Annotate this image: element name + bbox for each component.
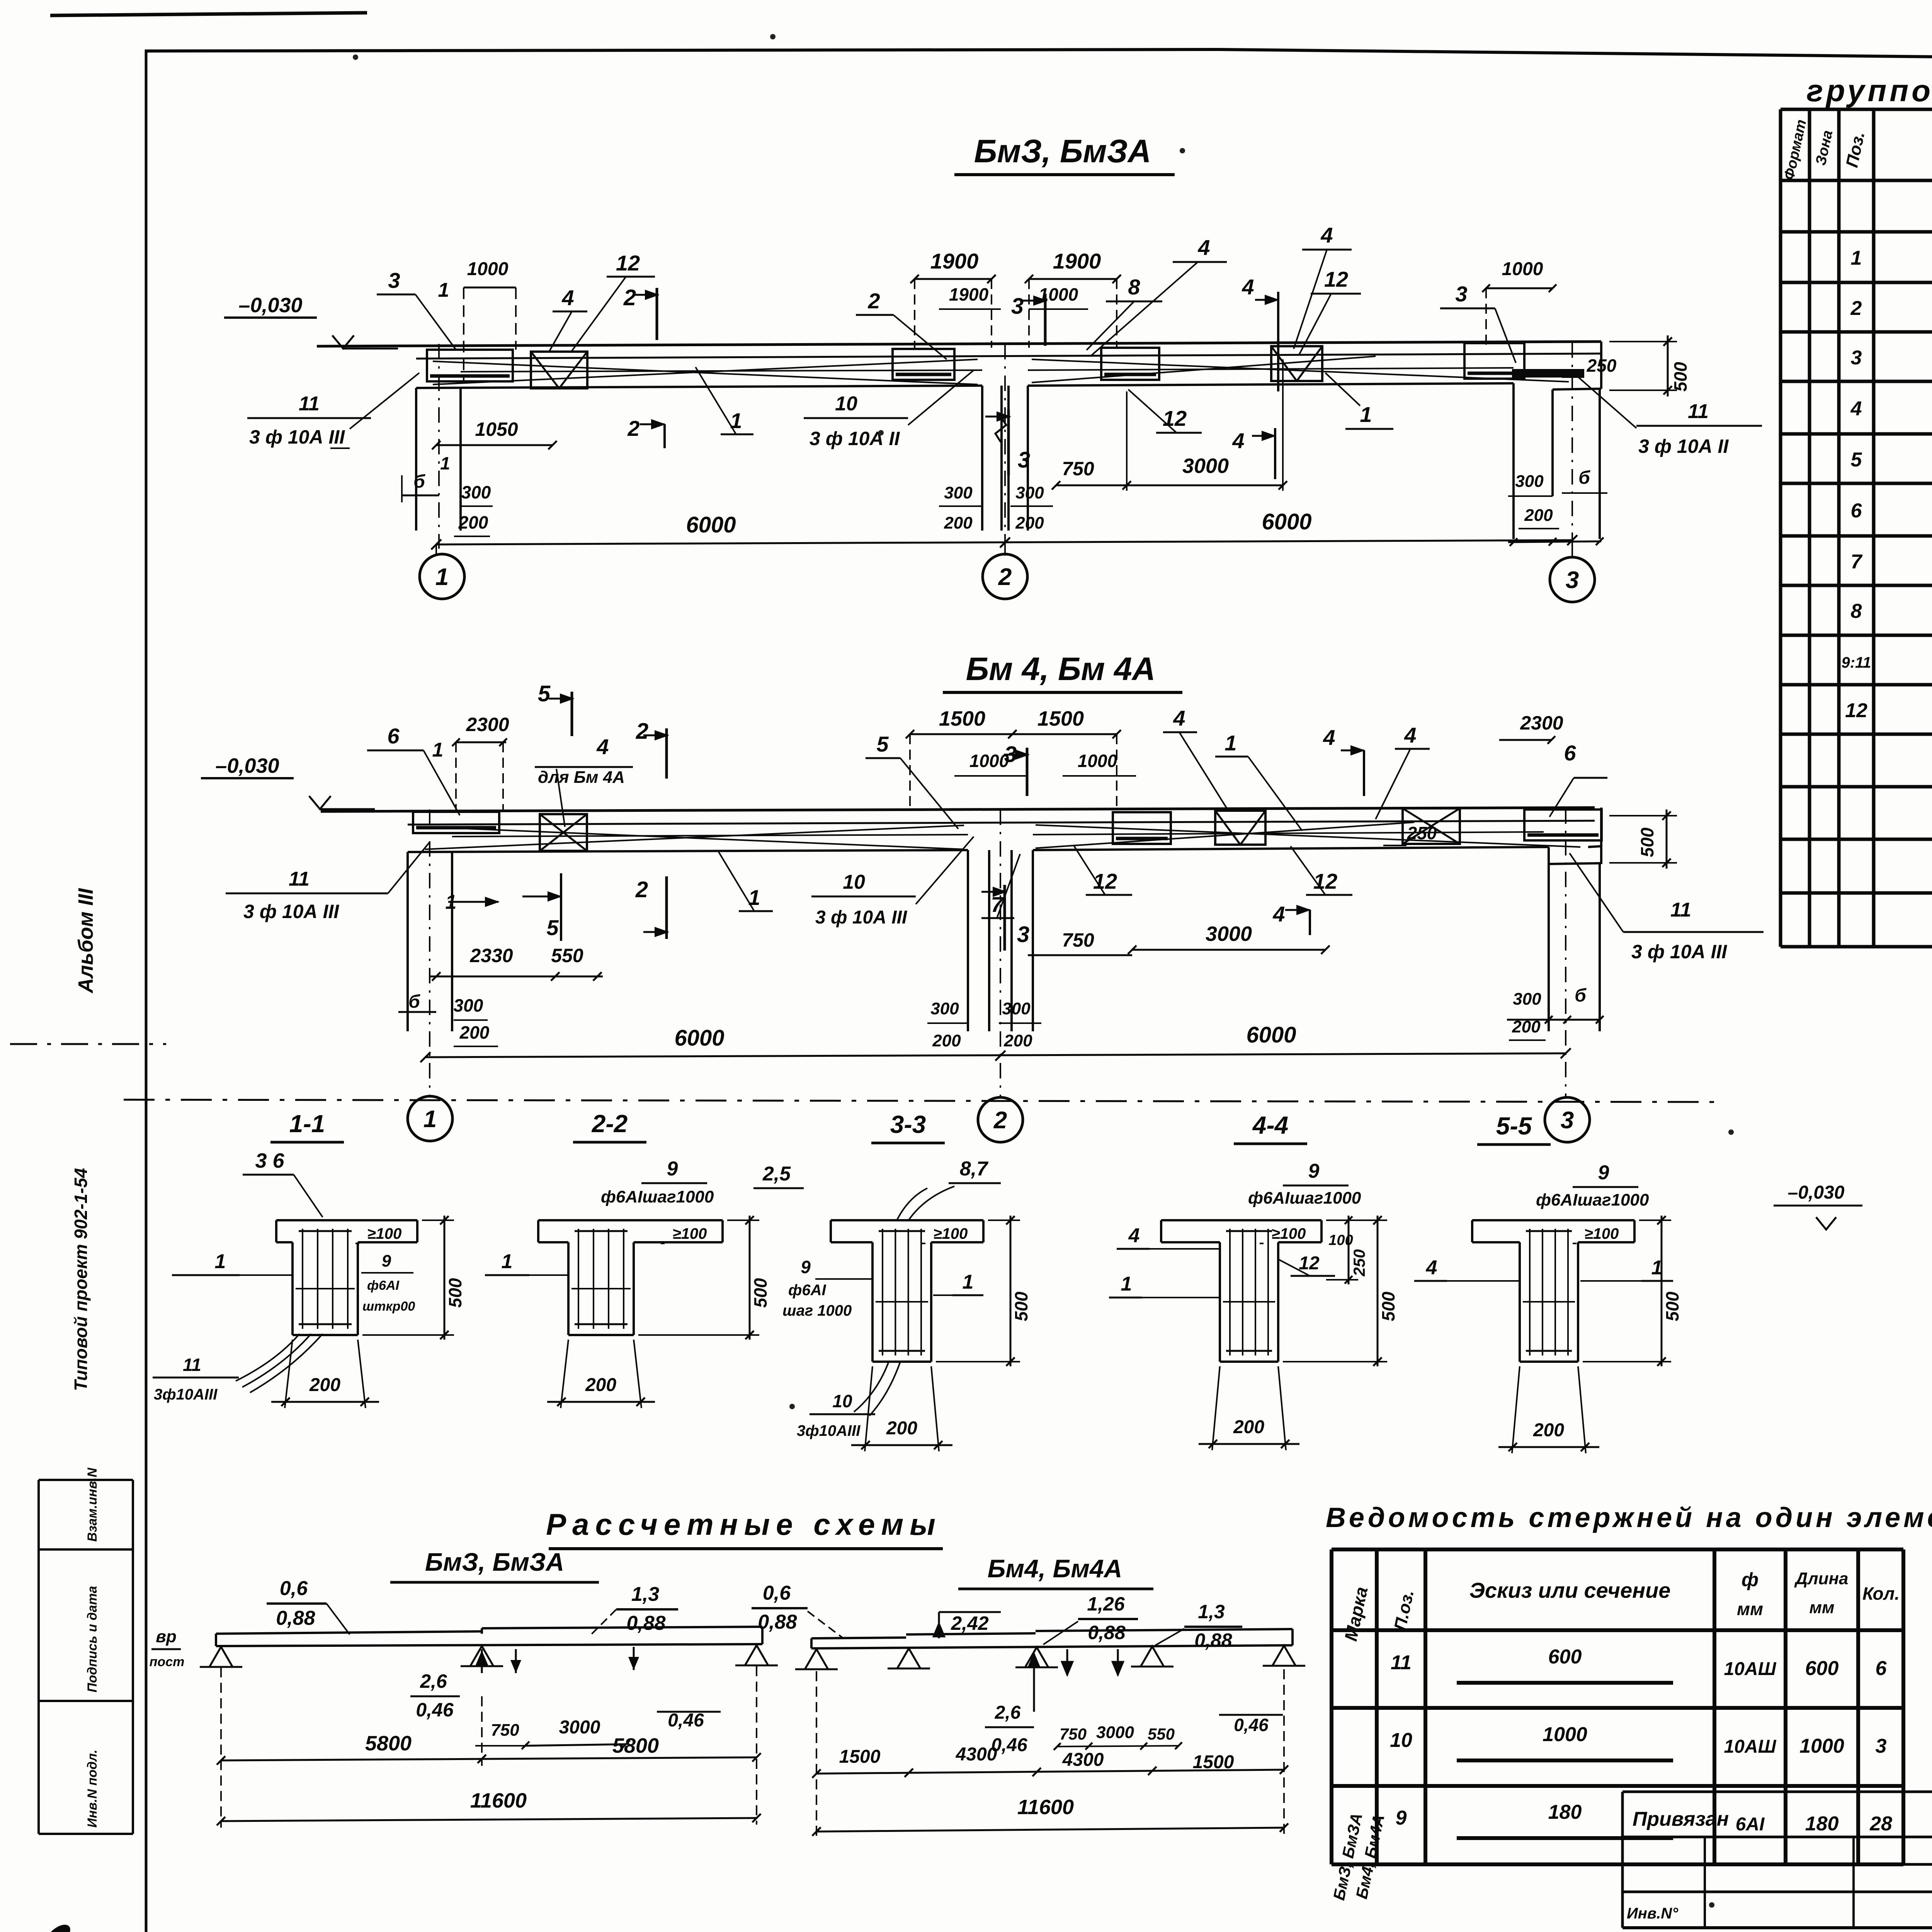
svg-text:250: 250 bbox=[1407, 823, 1437, 843]
svg-text:2,6: 2,6 bbox=[995, 1702, 1021, 1723]
svg-text:12: 12 bbox=[616, 251, 640, 275]
svg-text:200: 200 bbox=[886, 1418, 917, 1439]
svg-text:ф6АI: ф6АI bbox=[367, 1278, 400, 1293]
svg-text:мм: мм bbox=[1737, 1599, 1763, 1619]
svg-text:3 6: 3 6 bbox=[255, 1149, 284, 1172]
svg-text:ф: ф bbox=[1742, 1569, 1759, 1590]
svg-text:4: 4 bbox=[1323, 725, 1335, 750]
svg-text:0,6: 0,6 bbox=[280, 1577, 308, 1600]
svg-text:3 ф 10А III: 3 ф 10А III bbox=[243, 901, 339, 922]
svg-text:9: 9 bbox=[1598, 1162, 1609, 1184]
svg-text:Подпись и дата: Подпись и дата bbox=[85, 1586, 100, 1692]
svg-text:4300: 4300 bbox=[1062, 1750, 1104, 1770]
svg-text:4: 4 bbox=[1850, 398, 1862, 420]
svg-text:1: 1 bbox=[423, 1106, 437, 1133]
svg-text:500: 500 bbox=[1011, 1291, 1031, 1321]
svg-text:300: 300 bbox=[1513, 990, 1541, 1009]
svg-text:8: 8 bbox=[1851, 600, 1862, 622]
svg-text:0,88: 0,88 bbox=[758, 1611, 797, 1633]
svg-text:550: 550 bbox=[551, 945, 583, 966]
svg-text:ф6АI: ф6АI bbox=[788, 1282, 827, 1299]
svg-text:200: 200 bbox=[1533, 1420, 1564, 1440]
svg-text:3000: 3000 bbox=[1096, 1723, 1134, 1742]
svg-text:9: 9 bbox=[667, 1158, 678, 1180]
svg-text:10: 10 bbox=[832, 1391, 852, 1411]
svg-text:1000: 1000 bbox=[1799, 1735, 1844, 1757]
svg-text:БмЗ, БмЗА: БмЗ, БмЗА bbox=[425, 1548, 564, 1576]
svg-text:1000: 1000 bbox=[969, 751, 1009, 771]
svg-text:300: 300 bbox=[1015, 483, 1044, 502]
svg-text:500: 500 bbox=[750, 1278, 770, 1308]
svg-text:1,26: 1,26 bbox=[1087, 1593, 1125, 1615]
svg-text:б: б bbox=[1575, 985, 1587, 1006]
svg-text:мм: мм bbox=[1809, 1598, 1834, 1617]
svg-text:3: 3 bbox=[1017, 922, 1029, 947]
svg-text:10: 10 bbox=[835, 393, 857, 415]
svg-text:9:11: 9:11 bbox=[1841, 654, 1871, 671]
svg-text:ф6АIшаг1000: ф6АIшаг1000 bbox=[1248, 1189, 1361, 1207]
svg-text:5: 5 bbox=[876, 732, 889, 756]
svg-text:для Бм 4А: для Бм 4А bbox=[538, 768, 625, 787]
svg-text:3: 3 bbox=[1455, 282, 1467, 306]
svg-text:10АШ: 10АШ bbox=[1724, 1659, 1776, 1679]
svg-text:1-1: 1-1 bbox=[289, 1110, 325, 1138]
svg-text:ф6АIшаг1000: ф6АIшаг1000 bbox=[601, 1187, 714, 1206]
svg-text:1: 1 bbox=[502, 1250, 513, 1273]
svg-text:–0,030: –0,030 bbox=[238, 294, 302, 317]
svg-text:11600: 11600 bbox=[470, 1789, 527, 1812]
svg-text:500: 500 bbox=[445, 1278, 465, 1308]
svg-text:4: 4 bbox=[1232, 429, 1244, 453]
svg-text:6000: 6000 bbox=[674, 1026, 724, 1051]
svg-text:1: 1 bbox=[1651, 1257, 1663, 1279]
svg-text:2,6: 2,6 bbox=[420, 1670, 447, 1692]
svg-text:12: 12 bbox=[1845, 699, 1867, 722]
svg-text:5: 5 bbox=[546, 915, 559, 940]
svg-text:Привязан: Привязан bbox=[1633, 1808, 1729, 1830]
svg-text:0,46: 0,46 bbox=[416, 1699, 454, 1721]
svg-text:8,7: 8,7 bbox=[960, 1158, 988, 1180]
svg-text:7: 7 bbox=[1851, 551, 1863, 573]
svg-text:1,3: 1,3 bbox=[631, 1583, 659, 1605]
svg-text:11: 11 bbox=[1391, 1651, 1412, 1674]
svg-text:3ф10АIII: 3ф10АIII bbox=[797, 1422, 861, 1439]
svg-text:4: 4 bbox=[596, 735, 609, 759]
svg-text:180: 180 bbox=[1548, 1801, 1582, 1823]
svg-text:Рассчетные схемы: Рассчетные схемы bbox=[546, 1507, 942, 1541]
svg-text:0,46: 0,46 bbox=[1234, 1715, 1269, 1735]
svg-text:300: 300 bbox=[944, 483, 973, 502]
svg-text:3000: 3000 bbox=[1206, 922, 1252, 946]
svg-text:500: 500 bbox=[1378, 1291, 1398, 1321]
svg-text:3: 3 bbox=[388, 268, 400, 293]
svg-text:≥100: ≥100 bbox=[673, 1225, 707, 1242]
svg-text:4: 4 bbox=[1242, 275, 1254, 299]
svg-text:1: 1 bbox=[1121, 1273, 1132, 1295]
svg-text:2: 2 bbox=[636, 719, 648, 744]
svg-text:3000: 3000 bbox=[1182, 454, 1229, 478]
svg-text:3 ф 10А II: 3 ф 10А II bbox=[1638, 435, 1729, 457]
svg-text:11600: 11600 bbox=[1017, 1796, 1074, 1819]
svg-text:2: 2 bbox=[635, 877, 648, 902]
svg-text:2-2: 2-2 bbox=[592, 1110, 628, 1138]
svg-text:3: 3 bbox=[1566, 567, 1579, 594]
svg-text:4: 4 bbox=[1320, 223, 1333, 247]
svg-text:28: 28 bbox=[1869, 1813, 1892, 1835]
svg-text:4: 4 bbox=[561, 286, 574, 310]
svg-text:б: б bbox=[408, 992, 420, 1012]
svg-text:2: 2 bbox=[993, 1107, 1007, 1134]
svg-text:–0,030: –0,030 bbox=[1788, 1182, 1845, 1203]
svg-text:4300: 4300 bbox=[956, 1744, 997, 1765]
svg-text:200: 200 bbox=[585, 1375, 616, 1395]
svg-text:5-5: 5-5 bbox=[1496, 1112, 1532, 1140]
svg-text:1900: 1900 bbox=[1053, 249, 1101, 273]
svg-text:2,42: 2,42 bbox=[951, 1612, 989, 1634]
svg-text:750: 750 bbox=[1060, 1725, 1087, 1743]
svg-text:4-4: 4-4 bbox=[1252, 1111, 1289, 1139]
svg-text:1: 1 bbox=[1851, 247, 1862, 269]
svg-text:750: 750 bbox=[1062, 929, 1094, 951]
svg-text:1500: 1500 bbox=[839, 1747, 881, 1767]
svg-text:600: 600 bbox=[1548, 1646, 1582, 1668]
svg-text:0,88: 0,88 bbox=[276, 1607, 315, 1629]
svg-text:1: 1 bbox=[438, 279, 449, 301]
svg-text:550: 550 bbox=[1148, 1725, 1175, 1743]
svg-text:200: 200 bbox=[458, 512, 488, 532]
svg-text:1: 1 bbox=[432, 739, 444, 761]
svg-text:б: б bbox=[1578, 468, 1590, 488]
svg-text:1900: 1900 bbox=[949, 284, 989, 304]
svg-text:9: 9 bbox=[1396, 1807, 1407, 1829]
svg-text:9: 9 bbox=[1308, 1160, 1320, 1182]
svg-text:групповая спецификация для мон: групповая спецификация для монолитных ко… bbox=[1806, 73, 1932, 108]
svg-text:2: 2 bbox=[627, 416, 639, 440]
svg-text:2300: 2300 bbox=[466, 714, 509, 735]
svg-text:5800: 5800 bbox=[612, 1734, 659, 1757]
svg-text:Ведомость стержней на один эле: Ведомость стержней на один элемент bbox=[1326, 1502, 1932, 1533]
svg-text:10: 10 bbox=[1390, 1729, 1412, 1752]
svg-text:200: 200 bbox=[944, 514, 973, 532]
svg-text:4: 4 bbox=[1173, 706, 1185, 730]
svg-text:6000: 6000 bbox=[1262, 509, 1311, 534]
svg-text:2: 2 bbox=[867, 289, 880, 313]
svg-text:1050: 1050 bbox=[475, 418, 518, 440]
svg-text:6: 6 bbox=[1876, 1657, 1887, 1680]
svg-text:200: 200 bbox=[932, 1031, 961, 1050]
svg-text:500: 500 bbox=[1637, 827, 1657, 857]
svg-text:Взам.инв.N: Взам.инв.N bbox=[85, 1467, 100, 1542]
svg-text:4: 4 bbox=[1426, 1257, 1437, 1279]
svg-text:6АI: 6АI bbox=[1736, 1814, 1765, 1835]
svg-text:Бм 4, Бм 4А: Бм 4, Бм 4А bbox=[966, 651, 1156, 687]
svg-text:200: 200 bbox=[1003, 1031, 1032, 1050]
svg-text:Кол.: Кол. bbox=[1862, 1583, 1900, 1604]
svg-text:6: 6 bbox=[1851, 500, 1862, 522]
svg-text:4: 4 bbox=[1197, 235, 1210, 260]
svg-text:12: 12 bbox=[1324, 267, 1348, 291]
svg-text:1000: 1000 bbox=[467, 259, 509, 279]
svg-text:12: 12 bbox=[1299, 1253, 1320, 1274]
svg-text:100: 100 bbox=[1328, 1232, 1353, 1248]
svg-text:3: 3 bbox=[1561, 1107, 1574, 1134]
svg-text:0,6: 0,6 bbox=[763, 1582, 791, 1604]
svg-text:пост: пост bbox=[150, 1655, 185, 1669]
svg-text:1,3: 1,3 bbox=[1198, 1601, 1225, 1622]
svg-text:0,88: 0,88 bbox=[626, 1612, 665, 1634]
svg-text:6: 6 bbox=[1564, 741, 1576, 765]
svg-text:3ф10АIII: 3ф10АIII bbox=[154, 1386, 218, 1403]
svg-text:1000: 1000 bbox=[1543, 1723, 1587, 1746]
svg-text:0,88: 0,88 bbox=[1088, 1622, 1126, 1643]
svg-text:6000: 6000 bbox=[686, 512, 736, 537]
svg-text:3: 3 bbox=[1018, 447, 1030, 473]
svg-text:11: 11 bbox=[1688, 400, 1709, 423]
svg-text:1: 1 bbox=[730, 408, 742, 433]
svg-text:11: 11 bbox=[299, 393, 320, 415]
svg-text:–0,030: –0,030 bbox=[215, 754, 279, 777]
svg-text:3-3: 3-3 bbox=[890, 1111, 926, 1138]
svg-text:Инв.N подл.: Инв.N подл. bbox=[85, 1750, 100, 1828]
svg-text:11: 11 bbox=[1670, 899, 1691, 921]
svg-text:шткр00: шткр00 bbox=[362, 1299, 415, 1314]
svg-text:4: 4 bbox=[1128, 1225, 1140, 1247]
svg-text:≥100: ≥100 bbox=[1272, 1225, 1306, 1242]
svg-text:3 ф 10А III: 3 ф 10А III bbox=[1631, 941, 1727, 963]
svg-text:300: 300 bbox=[454, 995, 483, 1015]
svg-text:300: 300 bbox=[930, 999, 959, 1018]
svg-text:1: 1 bbox=[1225, 731, 1236, 755]
svg-text:300: 300 bbox=[1002, 999, 1031, 1018]
svg-text:Бм4, Бм4А: Бм4, Бм4А bbox=[988, 1554, 1122, 1583]
svg-text:1500: 1500 bbox=[1037, 707, 1084, 730]
svg-text:Альбом III: Альбом III bbox=[74, 888, 97, 994]
svg-text:1000: 1000 bbox=[1502, 259, 1543, 279]
svg-text:3: 3 bbox=[1004, 742, 1017, 767]
svg-text:1: 1 bbox=[748, 885, 760, 910]
svg-text:2: 2 bbox=[1850, 297, 1862, 320]
svg-text:5800: 5800 bbox=[365, 1732, 412, 1755]
svg-text:9: 9 bbox=[382, 1252, 391, 1270]
svg-text:200: 200 bbox=[1233, 1417, 1264, 1437]
svg-text:1: 1 bbox=[215, 1250, 226, 1273]
svg-text:0,88: 0,88 bbox=[1194, 1629, 1232, 1651]
svg-text:1: 1 bbox=[440, 453, 450, 473]
svg-text:750: 750 bbox=[1062, 458, 1094, 480]
svg-text:200: 200 bbox=[309, 1375, 340, 1395]
svg-text:Инв.N°: Инв.N° bbox=[1627, 1905, 1679, 1922]
svg-text:250: 250 bbox=[1350, 1249, 1368, 1277]
svg-text:≥100: ≥100 bbox=[367, 1225, 402, 1242]
svg-text:12: 12 bbox=[1163, 406, 1187, 430]
svg-text:1900: 1900 bbox=[930, 249, 979, 273]
svg-text:200: 200 bbox=[1524, 506, 1553, 525]
svg-text:2: 2 bbox=[998, 564, 1012, 590]
svg-text:вp: вp bbox=[156, 1627, 176, 1646]
svg-text:12: 12 bbox=[1313, 869, 1337, 893]
svg-text:11: 11 bbox=[183, 1355, 201, 1375]
svg-text:шаг 1000: шаг 1000 bbox=[782, 1302, 852, 1319]
svg-text:9: 9 bbox=[801, 1257, 811, 1277]
svg-text:Длина: Длина bbox=[1794, 1569, 1848, 1588]
svg-text:≥100: ≥100 bbox=[1585, 1225, 1619, 1242]
svg-text:≥100: ≥100 bbox=[934, 1225, 968, 1242]
svg-text:б: б bbox=[413, 471, 425, 492]
svg-text:10АШ: 10АШ bbox=[1724, 1736, 1776, 1757]
svg-text:10: 10 bbox=[843, 871, 865, 893]
svg-text:0,46: 0,46 bbox=[668, 1710, 704, 1731]
svg-text:180: 180 bbox=[1805, 1813, 1839, 1835]
svg-text:1: 1 bbox=[1360, 402, 1372, 427]
svg-text:1500: 1500 bbox=[1193, 1752, 1234, 1772]
svg-text:2330: 2330 bbox=[469, 945, 513, 966]
svg-text:1: 1 bbox=[435, 564, 449, 590]
svg-text:3 ф 10А III: 3 ф 10А III bbox=[249, 426, 345, 448]
svg-text:1000: 1000 bbox=[1078, 751, 1117, 771]
svg-text:3 ф 10А III: 3 ф 10А III bbox=[815, 907, 908, 928]
svg-text:2: 2 bbox=[623, 285, 636, 310]
svg-text:3: 3 bbox=[1876, 1735, 1887, 1757]
svg-text:300: 300 bbox=[1515, 472, 1544, 491]
svg-text:4: 4 bbox=[1272, 902, 1285, 926]
svg-text:600: 600 bbox=[1805, 1657, 1839, 1680]
svg-text:750: 750 bbox=[491, 1721, 519, 1740]
svg-text:6: 6 bbox=[387, 724, 400, 748]
svg-text:11: 11 bbox=[289, 868, 310, 890]
svg-text:2,5: 2,5 bbox=[762, 1163, 791, 1185]
svg-text:Типовой проект 902-1-54: Типовой проект 902-1-54 bbox=[71, 1168, 91, 1391]
svg-text:БмЗ, БмЗА: БмЗ, БмЗА bbox=[974, 133, 1151, 169]
svg-text:3000: 3000 bbox=[559, 1717, 600, 1738]
svg-text:500: 500 bbox=[1670, 362, 1690, 391]
svg-text:500: 500 bbox=[1662, 1291, 1682, 1321]
svg-text:250: 250 bbox=[1587, 355, 1617, 376]
svg-text:3: 3 bbox=[1011, 294, 1024, 319]
svg-text:1: 1 bbox=[963, 1271, 974, 1293]
svg-text:200: 200 bbox=[459, 1022, 490, 1043]
svg-text:Эскиз или сечение: Эскиз или сечение bbox=[1469, 1578, 1671, 1602]
svg-text:5: 5 bbox=[538, 681, 551, 706]
svg-text:5: 5 bbox=[1851, 449, 1862, 471]
svg-text:1500: 1500 bbox=[939, 707, 985, 730]
svg-text:300: 300 bbox=[461, 482, 491, 502]
svg-text:3: 3 bbox=[1851, 347, 1862, 369]
svg-text:6000: 6000 bbox=[1246, 1022, 1296, 1048]
svg-text:4: 4 bbox=[1404, 723, 1416, 747]
svg-text:200: 200 bbox=[1015, 514, 1044, 532]
svg-text:8: 8 bbox=[1128, 275, 1140, 299]
svg-text:2300: 2300 bbox=[1520, 712, 1563, 734]
svg-text:ф6АIшаг1000: ф6АIшаг1000 bbox=[1536, 1190, 1649, 1209]
svg-text:3 ф 10А II: 3 ф 10А II bbox=[810, 428, 900, 449]
